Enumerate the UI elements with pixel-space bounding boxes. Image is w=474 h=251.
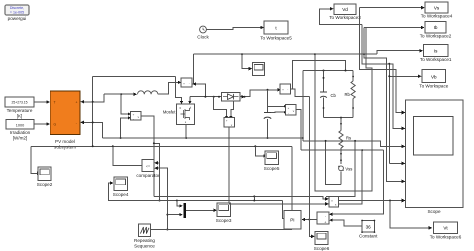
- wire to scope1: [242, 54, 249, 68]
- svg-text:Scope6: Scope6: [314, 246, 330, 251]
- svg-text:-: -: [288, 111, 289, 115]
- battery bottom return: [326, 141, 341, 184]
- svg-text:Discrete,: Discrete,: [10, 6, 24, 10]
- svg-text:Scope: Scope: [427, 209, 440, 214]
- svg-text:Rb: Rb: [345, 92, 351, 97]
- gate drop to mosfet: [176, 76, 182, 101]
- svg-text:+: +: [183, 81, 185, 85]
- svg-text:-: -: [133, 117, 134, 121]
- svg-text:-: -: [287, 88, 288, 92]
- current measurement CM1: [181, 78, 192, 87]
- svg-text:[W/m2]: [W/m2]: [13, 135, 28, 140]
- svg-text:To Workspace5: To Workspace5: [260, 36, 292, 41]
- battery mid rail: [324, 117, 354, 119]
- Constant 36: [359, 220, 378, 239]
- cap voltage taps to VM2: [268, 105, 285, 107]
- mux output to scope3: [186, 209, 214, 211]
- sum input1 from measured Vb: [331, 150, 384, 214]
- svg-text:Ib: Ib: [434, 25, 438, 30]
- svg-text:Rs: Rs: [346, 136, 351, 141]
- duty rail to PI output port: [283, 201, 284, 219]
- svg-text:To Workspace6: To Workspace6: [430, 235, 462, 240]
- inductor rail right: [158, 82, 178, 94]
- scope6 drop: [309, 220, 311, 237]
- filter capacitor C: [267, 90, 269, 113]
- svg-text:-: -: [189, 81, 190, 85]
- svg-text:To Workspace1: To Workspace1: [420, 57, 452, 62]
- Scope1: [253, 63, 265, 76]
- current measurement CM2: [280, 84, 290, 94]
- To Workspace4 (Vs): [421, 2, 453, 18]
- resistor Rs: [340, 118, 342, 131]
- svg-text:Clock: Clock: [197, 35, 209, 40]
- svg-text:+: +: [282, 88, 284, 92]
- product output to scope in6: [339, 200, 405, 202]
- svg-text:1000: 1000: [16, 123, 24, 127]
- VM2 output: [296, 110, 301, 150]
- node PV+ vertical: [92, 76, 94, 146]
- gate node rail (y=146.3): [31, 145, 292, 147]
- wire into Vd: [320, 9, 362, 25]
- wire into Vb ws: [388, 64, 390, 164]
- diode voltage measurement staple: [214, 97, 227, 117]
- mux input2 branch: [167, 214, 179, 216]
- svg-text:Scope5: Scope5: [264, 166, 280, 171]
- clock: [197, 26, 209, 39]
- drop to To Workspace6: [390, 201, 429, 228]
- diode block: [222, 92, 240, 101]
- rail jog continue to scope in3: [303, 141, 405, 146]
- To Workspace2 (Ib): [420, 22, 452, 39]
- svg-text:Vss: Vss: [345, 166, 352, 171]
- svg-text:Scope2: Scope2: [37, 182, 53, 187]
- PV model subsystem (orange): [50, 91, 80, 150]
- svg-text:25+273.15: 25+273.15: [11, 101, 27, 105]
- Mosfet block: [163, 104, 195, 125]
- Repeating Sequence: [134, 224, 155, 248]
- Scope2: [37, 167, 53, 187]
- gate rail: [93, 75, 176, 77]
- svg-text:To Workspace2: To Workspace2: [420, 34, 452, 39]
- svg-text:Scope4: Scope4: [113, 192, 129, 197]
- To Workspace (Vb): [419, 70, 448, 89]
- comparator input1: [154, 143, 160, 200]
- PV minus rail: [103, 137, 303, 139]
- svg-text:To Workspace3: To Workspace3: [329, 15, 361, 20]
- svg-text:powergui: powergui: [8, 16, 27, 21]
- svg-text:To Workspace4: To Workspace4: [421, 13, 453, 18]
- comparator input2: [156, 168, 167, 229]
- To Workspace6 (Vt): [430, 222, 462, 240]
- svg-text:Mosfet: Mosfet: [163, 110, 176, 115]
- Scope5 drop: [255, 146, 263, 156]
- PI controller: [284, 210, 301, 228]
- wire v2: [362, 25, 405, 129]
- svg-text:-: -: [76, 121, 77, 125]
- battery subcircuit top rail: [303, 70, 353, 72]
- wire irr to PV: [34, 123, 47, 125]
- wire v1: [360, 8, 406, 113]
- svg-text:Vs: Vs: [434, 5, 440, 10]
- rail end drop to sawtooth row: [291, 146, 293, 229]
- svg-text:subsystem: subsystem: [54, 145, 76, 150]
- VM1 output wire down: [141, 116, 154, 196]
- svg-text:Scope3: Scope3: [216, 218, 232, 223]
- comparator output: [113, 146, 142, 165]
- svg-text:Cb: Cb: [331, 93, 337, 98]
- mux input1 branch: [177, 201, 180, 206]
- To Workspace1 (Is): [420, 44, 452, 62]
- wire v4 loop: [315, 28, 372, 191]
- resistor Rb branch: [352, 71, 354, 82]
- product feed risers from right: [326, 141, 355, 197]
- mosfet drain wire: [189, 97, 191, 101]
- product input1 (Vpv rail): [154, 196, 326, 198]
- powergui block: [5, 5, 29, 21]
- svg-text:+: +: [76, 101, 78, 105]
- svg-text:-: -: [325, 214, 326, 218]
- Temperature constant: [5, 97, 34, 118]
- product input2 (Vd rail): [229, 203, 326, 205]
- Is rail: [193, 53, 376, 55]
- long riser from CM2 lower branch: [308, 97, 310, 220]
- svg-text:= 1e-005: = 1e-005: [10, 10, 24, 14]
- product (V x I) block: [329, 196, 339, 207]
- Scope2 drop: [31, 146, 37, 173]
- svg-text:T: T: [54, 101, 56, 105]
- sum input2 from constant: [331, 220, 362, 226]
- scope4 feed + duty rail: [109, 183, 283, 201]
- big Scope: [406, 100, 463, 214]
- VMD output down: [228, 127, 230, 204]
- PV + output wire: [82, 94, 104, 102]
- svg-text:To Workspace: To Workspace: [419, 83, 448, 88]
- CM2 lower branch: [293, 89, 310, 97]
- To Workspace5 (t): [260, 21, 292, 41]
- VMD block: [224, 117, 235, 127]
- RS output / sawtooth row: [151, 229, 293, 231]
- CM1 i output up to Is rail: [192, 54, 194, 84]
- svg-text:<=: <=: [146, 164, 150, 168]
- svg-text:G: G: [54, 123, 57, 127]
- Vb measurement rail: [301, 149, 384, 151]
- capacitor Cb branch: [323, 71, 325, 93]
- wire into Ib ws2: [364, 27, 421, 29]
- voltage measurement VM2: [285, 105, 296, 116]
- mosfet source wire down: [185, 124, 187, 138]
- diode row wire: [190, 96, 222, 98]
- Scope3: [216, 203, 232, 223]
- inductor L: [138, 91, 158, 94]
- CM1 right port to drain node: [192, 84, 205, 97]
- Irradiation constant: [6, 120, 34, 141]
- diode output wire: [240, 90, 278, 97]
- svg-text:Repeating: Repeating: [134, 238, 155, 243]
- svg-text:36: 36: [366, 224, 372, 229]
- battery DC source Vss: [338, 166, 352, 172]
- Scope6: [314, 232, 330, 251]
- Scope5: [264, 151, 280, 171]
- svg-text:+: +: [324, 220, 326, 224]
- voltage measurement VM1: [130, 112, 141, 121]
- Scope4: [113, 177, 129, 197]
- wire clock to To Workspace5: [207, 28, 261, 30]
- wire v3: [364, 28, 405, 182]
- mux: [183, 203, 185, 218]
- svg-text:Vd: Vd: [342, 7, 348, 12]
- wire temp to PV: [34, 101, 47, 103]
- PV - output wire: [82, 122, 103, 138]
- svg-text:Constant: Constant: [359, 233, 378, 238]
- svg-text:[K]: [K]: [17, 113, 23, 118]
- sum to PI wire: [304, 219, 317, 221]
- svg-text:Vb: Vb: [431, 74, 437, 79]
- svg-text:Vt: Vt: [443, 226, 448, 231]
- voltage measurement Vpv taps: [121, 94, 128, 114]
- inductor rail left: [104, 93, 134, 95]
- svg-text:PI: PI: [290, 217, 294, 222]
- svg-text:comparator: comparator: [136, 173, 160, 178]
- svg-text:Sequence: Sequence: [134, 243, 155, 248]
- comparator: [136, 160, 160, 179]
- wire into Is ws1: [377, 51, 420, 55]
- wire into Vs ws4: [360, 7, 422, 9]
- scope in4 feed: [389, 162, 405, 164]
- CM2 right port up to battery row: [290, 60, 345, 89]
- sum block: [317, 212, 329, 224]
- To Workspace3 (Vd): [329, 4, 361, 20]
- svg-text:PV model: PV model: [55, 139, 75, 144]
